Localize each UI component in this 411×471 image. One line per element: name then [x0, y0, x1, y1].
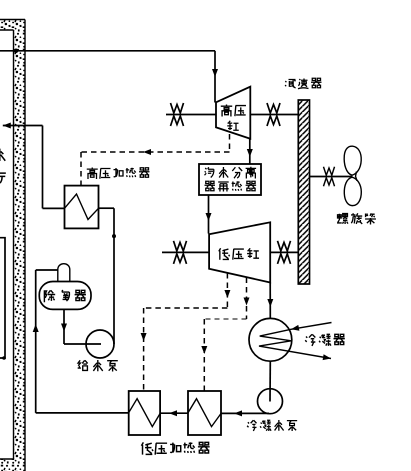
coupling HP left	[171, 103, 184, 126]
LP heater left	[129, 391, 160, 435]
wire HP exhaust to MSR	[249, 139, 251, 164]
label 低压缸	[219, 248, 259, 259]
label 冷凝器	[305, 334, 345, 346]
wire between LP heaters	[160, 412, 188, 414]
wire main steam horizontal	[0, 50, 215, 52]
wire condensate pump outlet	[221, 412, 269, 414]
condenser cooling water coil	[259, 323, 332, 359]
deaerator dome	[58, 264, 70, 282]
wire LP extraction1 down	[226, 273, 228, 308]
wire HP left shaft stub	[166, 114, 216, 116]
partial char 污	[0, 173, 6, 183]
coupling LP right	[278, 241, 291, 264]
wire HP heater right port	[99, 207, 115, 209]
node junction dot	[112, 234, 116, 238]
partial box at left edge	[0, 238, 5, 358]
wire HP extraction dashed down to heater	[80, 152, 82, 186]
wire HP extraction dashed horizontal	[81, 151, 230, 153]
label 螺旋桨	[337, 213, 376, 224]
wire HP right shaft	[250, 114, 298, 116]
wire feedwater up	[42, 126, 44, 209]
label 减速器	[285, 78, 321, 89]
coupling HP right	[267, 103, 280, 126]
label 汽水分离	[205, 167, 257, 179]
feed pump 给水泵	[86, 330, 114, 358]
wire to feed pump	[64, 343, 101, 345]
node steam line wall junction	[14, 49, 19, 54]
deaerator 除氧器	[39, 282, 91, 310]
wire LP extraction2 down	[246, 278, 248, 320]
HP heater 高压加热器	[65, 186, 99, 229]
wire propeller shaft	[310, 176, 353, 178]
wire MSR to LP turbine	[208, 195, 210, 234]
wire condenser to condensate pump	[269, 361, 271, 401]
HP turbine 高压缸	[216, 87, 250, 139]
wire HP heater left port	[43, 207, 65, 209]
wire condensate riser	[35, 270, 37, 413]
wall stipple vertical band	[14, 30, 26, 471]
label 给水泵	[78, 360, 118, 371]
wire LP left shaft stub	[162, 251, 209, 253]
wire feedwater to steam generator	[3, 125, 43, 127]
wall stipple top arm	[0, 20, 25, 31]
wall stipple bottom arm	[0, 459, 14, 471]
label 冷凝水泵	[247, 420, 297, 431]
wire LP exhaust to condenser	[269, 283, 271, 319]
wire LP extraction1 down to heater	[143, 308, 145, 391]
wire feed pump outlet riser	[113, 208, 115, 344]
LP heater right	[188, 391, 221, 435]
wire deaerator outlet	[63, 309, 65, 344]
gearbox 减速器	[298, 100, 309, 284]
wire LP extraction1 horizontal	[144, 307, 228, 309]
LP turbine 低压缸	[209, 222, 270, 282]
label 高压缸	[221, 105, 246, 117]
wire riser to deaerator dome	[36, 269, 58, 271]
partial char 水	[0, 149, 5, 161]
label 器再热器	[205, 181, 257, 191]
label 低压加热器	[141, 442, 209, 454]
label 除氧器	[44, 290, 86, 302]
wire LP extraction2 horizontal light	[204, 318, 246, 320]
coupling LP left	[174, 241, 187, 264]
condenser 冷凝器	[249, 318, 292, 361]
MSR box 汽水分离器再热器	[199, 164, 261, 195]
propeller 螺旋桨	[344, 146, 361, 205]
wire main steam down to HP turbine	[214, 51, 216, 103]
label 高压加热器	[87, 168, 150, 180]
wire LP right shaft	[270, 251, 298, 253]
wire LP extraction2 down to heater	[203, 319, 205, 391]
condensate pump 冷凝水泵	[258, 389, 283, 414]
wire LP heater outlet to riser	[36, 412, 129, 414]
wire HP extraction dashed stub	[229, 134, 231, 152]
wall outline	[0, 20, 25, 471]
coupling propeller shaft	[323, 167, 334, 187]
